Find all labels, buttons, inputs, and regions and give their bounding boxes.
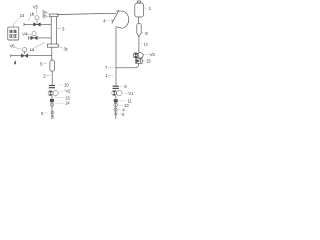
svg-text:V4: V4 [22,31,28,36]
svg-text:V3: V3 [150,52,156,57]
svg-text:V2: V2 [65,88,71,93]
svg-text:V5: V5 [33,5,39,10]
svg-text:V1: V1 [128,91,134,96]
svg-text:V6: V6 [10,43,16,48]
